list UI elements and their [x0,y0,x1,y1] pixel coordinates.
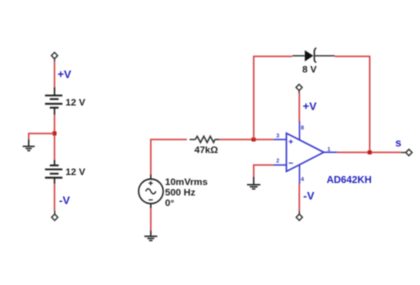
zener diode D1 [292,48,334,63]
svg-text:0°: 0° [165,198,174,209]
svg-text:12 V: 12 V [66,97,86,108]
wire +V connector to battery V1 [54,62,56,88]
wire op-amp pin 4 to -V connector [298,184,300,211]
wire feedback top left [253,55,292,57]
ground symbol (op-amp) [247,177,260,189]
wire feedback left vertical [253,56,255,139]
junction dot (feedback tap) [252,138,256,142]
ground symbol (source) [144,231,157,241]
wire source to resistor R1 [151,140,187,175]
battery V1 12V [45,88,62,115]
wire to inverting input / ground branch [254,165,274,178]
junction dot (battery midpoint) [53,131,57,135]
svg-text:47kΩ: 47kΩ [194,145,218,156]
node connector +V (op-amp supply) [296,84,302,93]
node connector -V (op-amp supply) [296,211,302,221]
wire battery V1 to battery V2 (through junction) [54,115,56,161]
battery V2 12V [45,160,62,184]
wire source to ground (bottom) [150,208,152,231]
op-amp input stub pin 3 [274,139,287,141]
svg-text:3: 3 [276,133,279,139]
wire op-amp output to node s [337,151,401,153]
op-amp minus sign [289,162,293,164]
wire battery V2 to -V connector [54,184,56,211]
op-amp V- stub pin 4 [299,164,301,184]
resistor R1 47k [190,136,220,142]
op-amp U1 triangle [286,133,323,171]
op-amp plus sign [289,140,293,144]
svg-text:-V: -V [59,195,71,207]
op-amp output stub pin 1 [324,151,337,153]
svg-text:500 Hz: 500 Hz [165,188,196,199]
svg-text:AD642KH: AD642KH [327,175,372,186]
wire feedback top right [335,55,370,57]
wire +V connector to op-amp pin 8 [298,93,300,121]
svg-text:8: 8 [301,125,304,131]
op-amp V+ stub pin 8 [299,121,301,140]
svg-text:+V: +V [58,69,72,81]
svg-text:1: 1 [327,147,330,153]
svg-text:12 V: 12 V [66,167,86,178]
svg-text:s: s [395,138,401,150]
svg-text:8 V: 8 V [302,64,317,75]
ground symbol (left rail) [23,140,35,151]
svg-text:2: 2 [276,159,279,165]
AC source V3 circle [139,174,164,208]
op-amp input stub pin 2 [274,164,287,166]
wire junction to ground (left) [29,134,55,141]
wire feedback right vertical [369,56,371,153]
node connector -V (bottom left) [52,211,58,221]
svg-text:-V: -V [303,191,315,203]
wire resistor R1 to op-amp input (pin 3) [219,139,273,141]
junction dot (output/feedback) [368,150,372,154]
svg-text:10mVrms: 10mVrms [165,177,208,188]
svg-text:+V: +V [303,101,317,113]
node connector +V (top left) [51,52,57,61]
node connector s [401,149,412,155]
